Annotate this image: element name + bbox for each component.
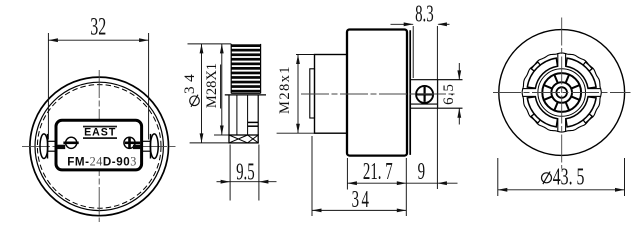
svg-text:M28X1: M28X1 <box>204 63 220 108</box>
svg-text:EAST: EAST <box>84 127 116 139</box>
svg-text:6.5: 6.5 <box>441 83 457 105</box>
svg-text:21. 7: 21. 7 <box>363 159 393 185</box>
svg-text:34: 34 <box>181 70 198 94</box>
svg-text:9: 9 <box>418 159 425 185</box>
svg-text:34: 34 <box>352 187 372 213</box>
svg-text:M28x1: M28x1 <box>277 65 293 114</box>
svg-text:32: 32 <box>90 12 106 41</box>
svg-text:43. 5: 43. 5 <box>553 165 585 191</box>
svg-text:8.3: 8.3 <box>415 1 434 27</box>
svg-text:9.5: 9.5 <box>236 159 255 185</box>
svg-text:FM-24D-903: FM-24D-903 <box>67 155 137 169</box>
